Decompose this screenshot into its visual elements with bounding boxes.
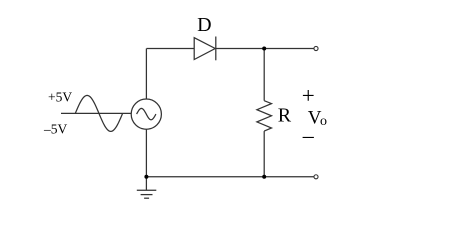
svg-text:–: –: [302, 123, 315, 148]
svg-text:+: +: [302, 83, 315, 108]
svg-text:D: D: [197, 14, 211, 36]
svg-text:–5V: –5V: [43, 121, 68, 136]
svg-text:R: R: [278, 104, 292, 126]
svg-text:+5V: +5V: [48, 90, 72, 105]
